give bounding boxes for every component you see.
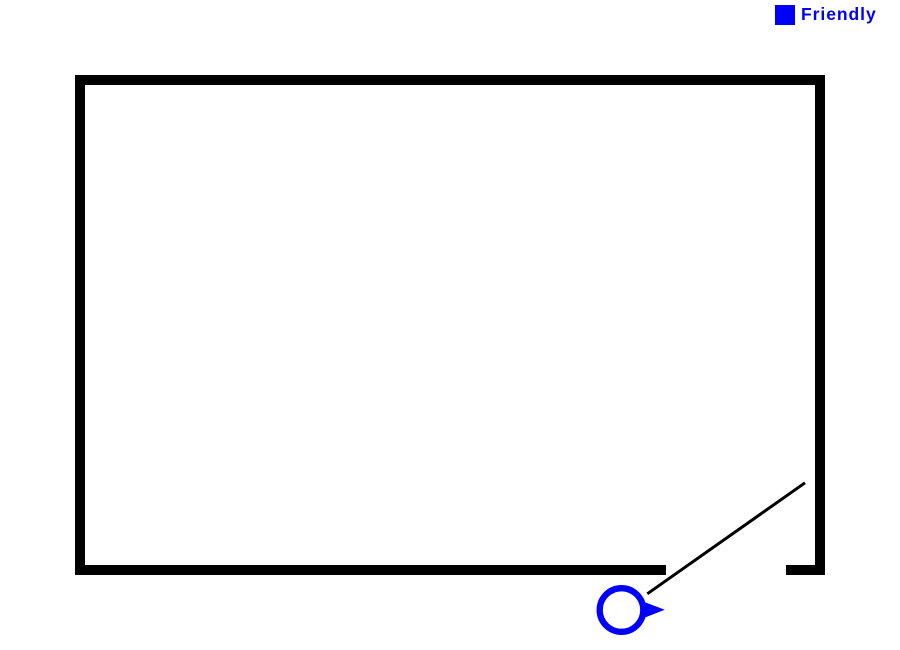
- wall bottom-left segment: [75, 565, 666, 575]
- door line: [647, 483, 805, 594]
- agent heading triangle: [622, 593, 665, 626]
- wall bottom-right segment: [786, 565, 825, 575]
- legend swatch Friendly: [775, 5, 795, 25]
- agent body circle: [600, 588, 644, 632]
- wall top: [75, 75, 825, 85]
- wall right: [815, 75, 825, 575]
- wall left: [75, 75, 85, 575]
- svg-text:Friendly: Friendly: [801, 4, 877, 24]
